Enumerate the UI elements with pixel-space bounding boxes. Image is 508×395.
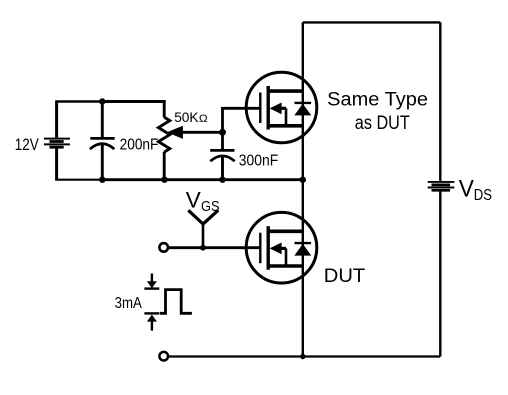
svg-text:12V: 12V	[15, 136, 39, 154]
wire top-left rail	[55, 100, 103, 103]
transistor Q1 upper MOSFET	[246, 72, 317, 143]
node source junction upper MOSFET	[300, 177, 306, 183]
wire gate feed upper MOSFET	[221, 107, 259, 110]
node VGS probe junction	[200, 245, 206, 251]
svg-text:DUT: DUT	[324, 265, 365, 287]
potentiometer wiper arrow	[167, 126, 223, 139]
pulse waveform	[160, 290, 192, 314]
svg-text:V: V	[186, 188, 201, 213]
wire right vertical lower	[439, 191, 441, 357]
wire right vertical upper	[439, 22, 441, 181]
battery V2 VDS	[428, 182, 455, 190]
wire bottom-left rail	[55, 179, 102, 181]
svg-text:3mA: 3mA	[115, 295, 142, 312]
node bottom rail junction	[300, 354, 305, 359]
probe VGS	[188, 210, 218, 247]
svg-text:200nF: 200nF	[120, 136, 159, 153]
svg-text:Ω: Ω	[199, 113, 208, 125]
svg-text:GS: GS	[201, 199, 220, 215]
node C1 bottom	[99, 177, 105, 183]
svg-text:300nF: 300nF	[239, 152, 279, 169]
capacitor C2 300nF	[210, 150, 235, 179]
transistor Q2 lower MOSFET DUT	[246, 212, 317, 283]
terminal gate input circle	[159, 243, 168, 252]
wire bottom rail	[168, 355, 440, 357]
wire top rail	[303, 21, 441, 23]
pulse source annotation	[144, 274, 159, 331]
node C2 bottom	[219, 177, 225, 183]
svg-text:as DUT: as DUT	[355, 112, 410, 134]
node wiper junction	[219, 129, 226, 136]
wire gate DUT	[168, 246, 260, 249]
svg-text:V: V	[459, 177, 474, 203]
battery V1 12V	[44, 102, 70, 180]
node top rail / C1 junction	[99, 98, 105, 104]
potentiometer R1 50K zigzag	[158, 102, 169, 180]
wire wiper to gate riser	[221, 107, 224, 150]
wire drain axis vertical	[302, 22, 304, 356]
svg-text:DS: DS	[474, 187, 492, 204]
node R1 bottom	[161, 177, 167, 183]
terminal source input circle	[159, 352, 168, 361]
capacitor C1 200nF	[90, 102, 115, 180]
svg-text:Same Type: Same Type	[327, 88, 428, 110]
svg-text:50K: 50K	[174, 110, 199, 125]
